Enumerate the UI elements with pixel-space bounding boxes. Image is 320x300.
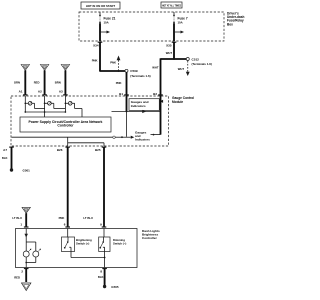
- svg-text:LT BLU: LT BLU: [83, 216, 93, 220]
- connector X34: [93, 42, 102, 48]
- svg-text:HOT IN ON OR START: HOT IN ON OR START: [86, 4, 116, 8]
- svg-text:A3: A3: [59, 89, 63, 93]
- LED branch 1: [24, 96, 44, 112]
- terminal A3: [59, 89, 68, 95]
- wire X35 to junction (WHT): [161, 42, 188, 60]
- svg-text:B1: B1: [119, 92, 123, 96]
- connector C509: [125, 69, 151, 78]
- svg-text:BLK: BLK: [98, 275, 104, 279]
- wire A2 (RED): [34, 70, 45, 94]
- svg-text:LT BLU: LT BLU: [12, 216, 22, 220]
- svg-text:B25: B25: [95, 148, 101, 152]
- dash lights brightness controller box: [16, 229, 138, 268]
- connector C512: [186, 57, 212, 66]
- wire B1 inside: [126, 96, 128, 137]
- svg-text:BLK: BLK: [2, 156, 8, 160]
- svg-text:G505: G505: [111, 285, 119, 289]
- wire terminal 8 (BLK) to ground: [98, 269, 105, 287]
- svg-text:RED: RED: [14, 276, 20, 280]
- svg-text:(Terminals 1-6): (Terminals 1-6): [130, 74, 150, 78]
- svg-text:PNK: PNK: [59, 216, 65, 220]
- dimming switch box: [99, 229, 127, 252]
- svg-text:Module: Module: [172, 100, 183, 104]
- terminal 1: [20, 223, 28, 228]
- svg-text:X35: X35: [166, 44, 172, 48]
- terminal 8: [100, 268, 107, 274]
- svg-text:Fuse 21: Fuse 21: [104, 16, 116, 20]
- power supply box: [20, 117, 111, 132]
- svg-text:BRN: BRN: [55, 81, 61, 85]
- svg-text:Indicators: Indicators: [131, 104, 146, 108]
- svg-text:Fuse 7: Fuse 7: [178, 16, 188, 20]
- wire to terminal 1 (LT BLU): [12, 213, 26, 227]
- LED branch 3: [65, 96, 82, 117]
- svg-text:C509: C509: [130, 69, 138, 73]
- wire X34 to junction (PNK): [92, 42, 127, 71]
- wire A7 (BLK) to ground: [2, 147, 12, 170]
- wire A3 (BRN): [55, 70, 66, 94]
- label Driver's Under-dash Fuse/Relay Box: [227, 12, 245, 27]
- fuse 21: [99, 12, 115, 41]
- lamp circuit inside: [24, 229, 35, 252]
- svg-text:10A: 10A: [104, 20, 109, 24]
- gauge control module box (dashed): [11, 96, 169, 146]
- terminal B25: [95, 147, 106, 152]
- brightening output wire: [71, 252, 106, 259]
- wire B26 (PNK): [59, 147, 68, 228]
- svg-text:ORN: ORN: [14, 81, 20, 85]
- fuse/relay box (dashed): [79, 12, 224, 41]
- label Gauge Control Module: [172, 96, 194, 104]
- hot in on or start label box: [81, 2, 120, 9]
- svg-text:A2: A2: [38, 89, 42, 93]
- svg-text:RED: RED: [34, 81, 40, 85]
- off-page triangle A2: [40, 65, 48, 71]
- branch arrow up (PNK): [110, 56, 120, 73]
- svg-text:G501: G501: [23, 168, 31, 172]
- off-page triangle A3: [61, 65, 69, 71]
- internal bus of A wires: [24, 111, 66, 117]
- svg-text:A7: A7: [3, 148, 7, 152]
- internal bottom bus: [12, 136, 135, 139]
- wire C509 to B1 (PNK): [116, 72, 127, 94]
- bus B1 to B2 with arrow: [112, 110, 161, 113]
- lamp 1: [23, 249, 31, 257]
- lamp 2: [33, 249, 41, 257]
- label Dash Lights Brightness Controller: [142, 229, 160, 240]
- svg-text:PNK: PNK: [110, 60, 116, 64]
- svg-text:(Terminals 1-6): (Terminals 1-6): [192, 62, 212, 66]
- off-page triangle terminal 1: [22, 207, 30, 213]
- off-page triangle A1: [21, 65, 29, 71]
- terminal A2: [38, 89, 47, 95]
- svg-text:10A: 10A: [178, 20, 183, 24]
- fuse 7: [173, 12, 188, 41]
- gauges and indicators box (upper): [129, 99, 163, 111]
- svg-text:C512: C512: [192, 57, 200, 61]
- svg-text:PNK: PNK: [116, 81, 122, 85]
- svg-text:WHT: WHT: [152, 66, 159, 70]
- connector X35: [166, 42, 176, 48]
- wire A1 (ORN): [14, 70, 25, 94]
- svg-text:WHT: WHT: [178, 67, 185, 71]
- terminal B1: [119, 92, 129, 96]
- gauges and indicators label (lower): [135, 130, 150, 141]
- terminal A1: [19, 89, 28, 95]
- wire B2 inside: [159, 96, 163, 135]
- svg-text:X34: X34: [93, 44, 99, 48]
- terminal 2: [21, 268, 28, 274]
- wire B25 (LT BLU): [83, 147, 104, 228]
- lamp loop bottom: [25, 257, 35, 268]
- svg-text:Switch (−): Switch (−): [113, 241, 126, 245]
- svg-text:Switch (+): Switch (+): [76, 241, 89, 245]
- hot at all times label box: [161, 2, 182, 8]
- svg-text:HOT AT ALL TIMES: HOT AT ALL TIMES: [162, 3, 181, 7]
- LED branch 2: [44, 96, 66, 112]
- svg-text:WHT: WHT: [166, 51, 173, 55]
- svg-text:Box: Box: [227, 22, 233, 26]
- terminal 9: [100, 223, 106, 228]
- svg-text:Controller: Controller: [57, 124, 74, 128]
- terminal B26: [57, 147, 70, 152]
- off-page triangle down (open): [22, 283, 31, 291]
- terminal B2: [153, 92, 163, 96]
- svg-text:PNK: PNK: [92, 59, 98, 63]
- svg-text:A1: A1: [19, 89, 23, 93]
- ground G501: [10, 168, 30, 172]
- svg-text:B2: B2: [153, 92, 157, 96]
- ground G505: [103, 285, 119, 289]
- terminal A7: [3, 147, 14, 152]
- stubs to B26 B25: [68, 137, 104, 146]
- wire terminal 2 (RED): [14, 269, 26, 283]
- brightening switch box: [62, 229, 92, 252]
- terminal 6: [64, 223, 70, 228]
- branch arrow down (WHT): [178, 61, 190, 76]
- svg-text:B26: B26: [57, 148, 63, 152]
- svg-text:Controller: Controller: [142, 236, 158, 240]
- svg-text:Indicators: Indicators: [135, 137, 150, 141]
- dimming output wire: [104, 247, 106, 267]
- wire to B2 (WHT): [152, 58, 160, 94]
- link to B2 with dot: [151, 134, 161, 136]
